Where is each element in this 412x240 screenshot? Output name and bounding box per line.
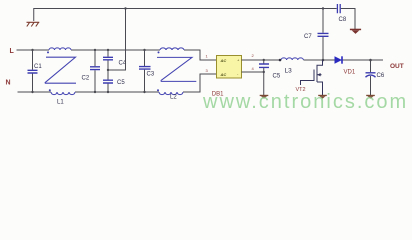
svg-text:N: N <box>6 80 11 87</box>
svg-text:OUT: OUT <box>390 63 404 70</box>
svg-text:L3: L3 <box>285 68 293 75</box>
capacitor C5 (bulk) <box>259 59 281 95</box>
capacitor C1 <box>28 49 43 93</box>
svg-text:C5: C5 <box>117 80 125 86</box>
inductor L3 <box>281 58 303 60</box>
svg-text:C1: C1 <box>34 64 42 70</box>
svg-text:C5: C5 <box>273 74 281 80</box>
choke L1 <box>45 48 76 95</box>
earth arrow top right <box>350 29 361 34</box>
wire C8 to top-right earth <box>341 9 355 30</box>
svg-text:L1: L1 <box>57 100 64 106</box>
choke L2 <box>157 48 196 95</box>
wire top earth bus <box>34 9 337 22</box>
svg-text:C6: C6 <box>377 73 385 79</box>
svg-text:L: L <box>10 48 15 55</box>
svg-text:L2: L2 <box>170 95 177 101</box>
wire DC- to C5 <box>242 71 264 73</box>
svg-text:C2: C2 <box>82 75 90 81</box>
svg-text:C3: C3 <box>147 72 155 78</box>
capacitor C8 <box>337 4 346 23</box>
wire L line <box>17 50 217 60</box>
svg-text:C7: C7 <box>304 34 312 40</box>
ground under C6 <box>366 95 375 99</box>
svg-text:AC: AC <box>220 58 227 63</box>
wire DC+ rail <box>242 59 384 61</box>
svg-text:www.cntronics.com: www.cntronics.com <box>202 91 408 112</box>
ground under C5 <box>260 95 269 99</box>
chassis ground <box>27 22 40 26</box>
wire earth drop <box>108 9 126 71</box>
capacitor C7 <box>304 7 329 61</box>
transistor VT2 <box>301 60 323 95</box>
ground under VT2 <box>318 95 327 99</box>
capacitor C2 <box>82 49 101 93</box>
capacitor C3 <box>139 49 155 93</box>
svg-text:VD1: VD1 <box>344 70 356 76</box>
svg-text:AC: AC <box>220 72 227 77</box>
diode VD1 <box>335 56 356 75</box>
bridge rectifier DB1 <box>206 53 255 98</box>
wire N line <box>18 74 217 92</box>
capacitor C6 <box>366 59 385 95</box>
capacitor C4 / C5 chain with earth link <box>103 49 127 93</box>
svg-text:C8: C8 <box>339 17 347 23</box>
